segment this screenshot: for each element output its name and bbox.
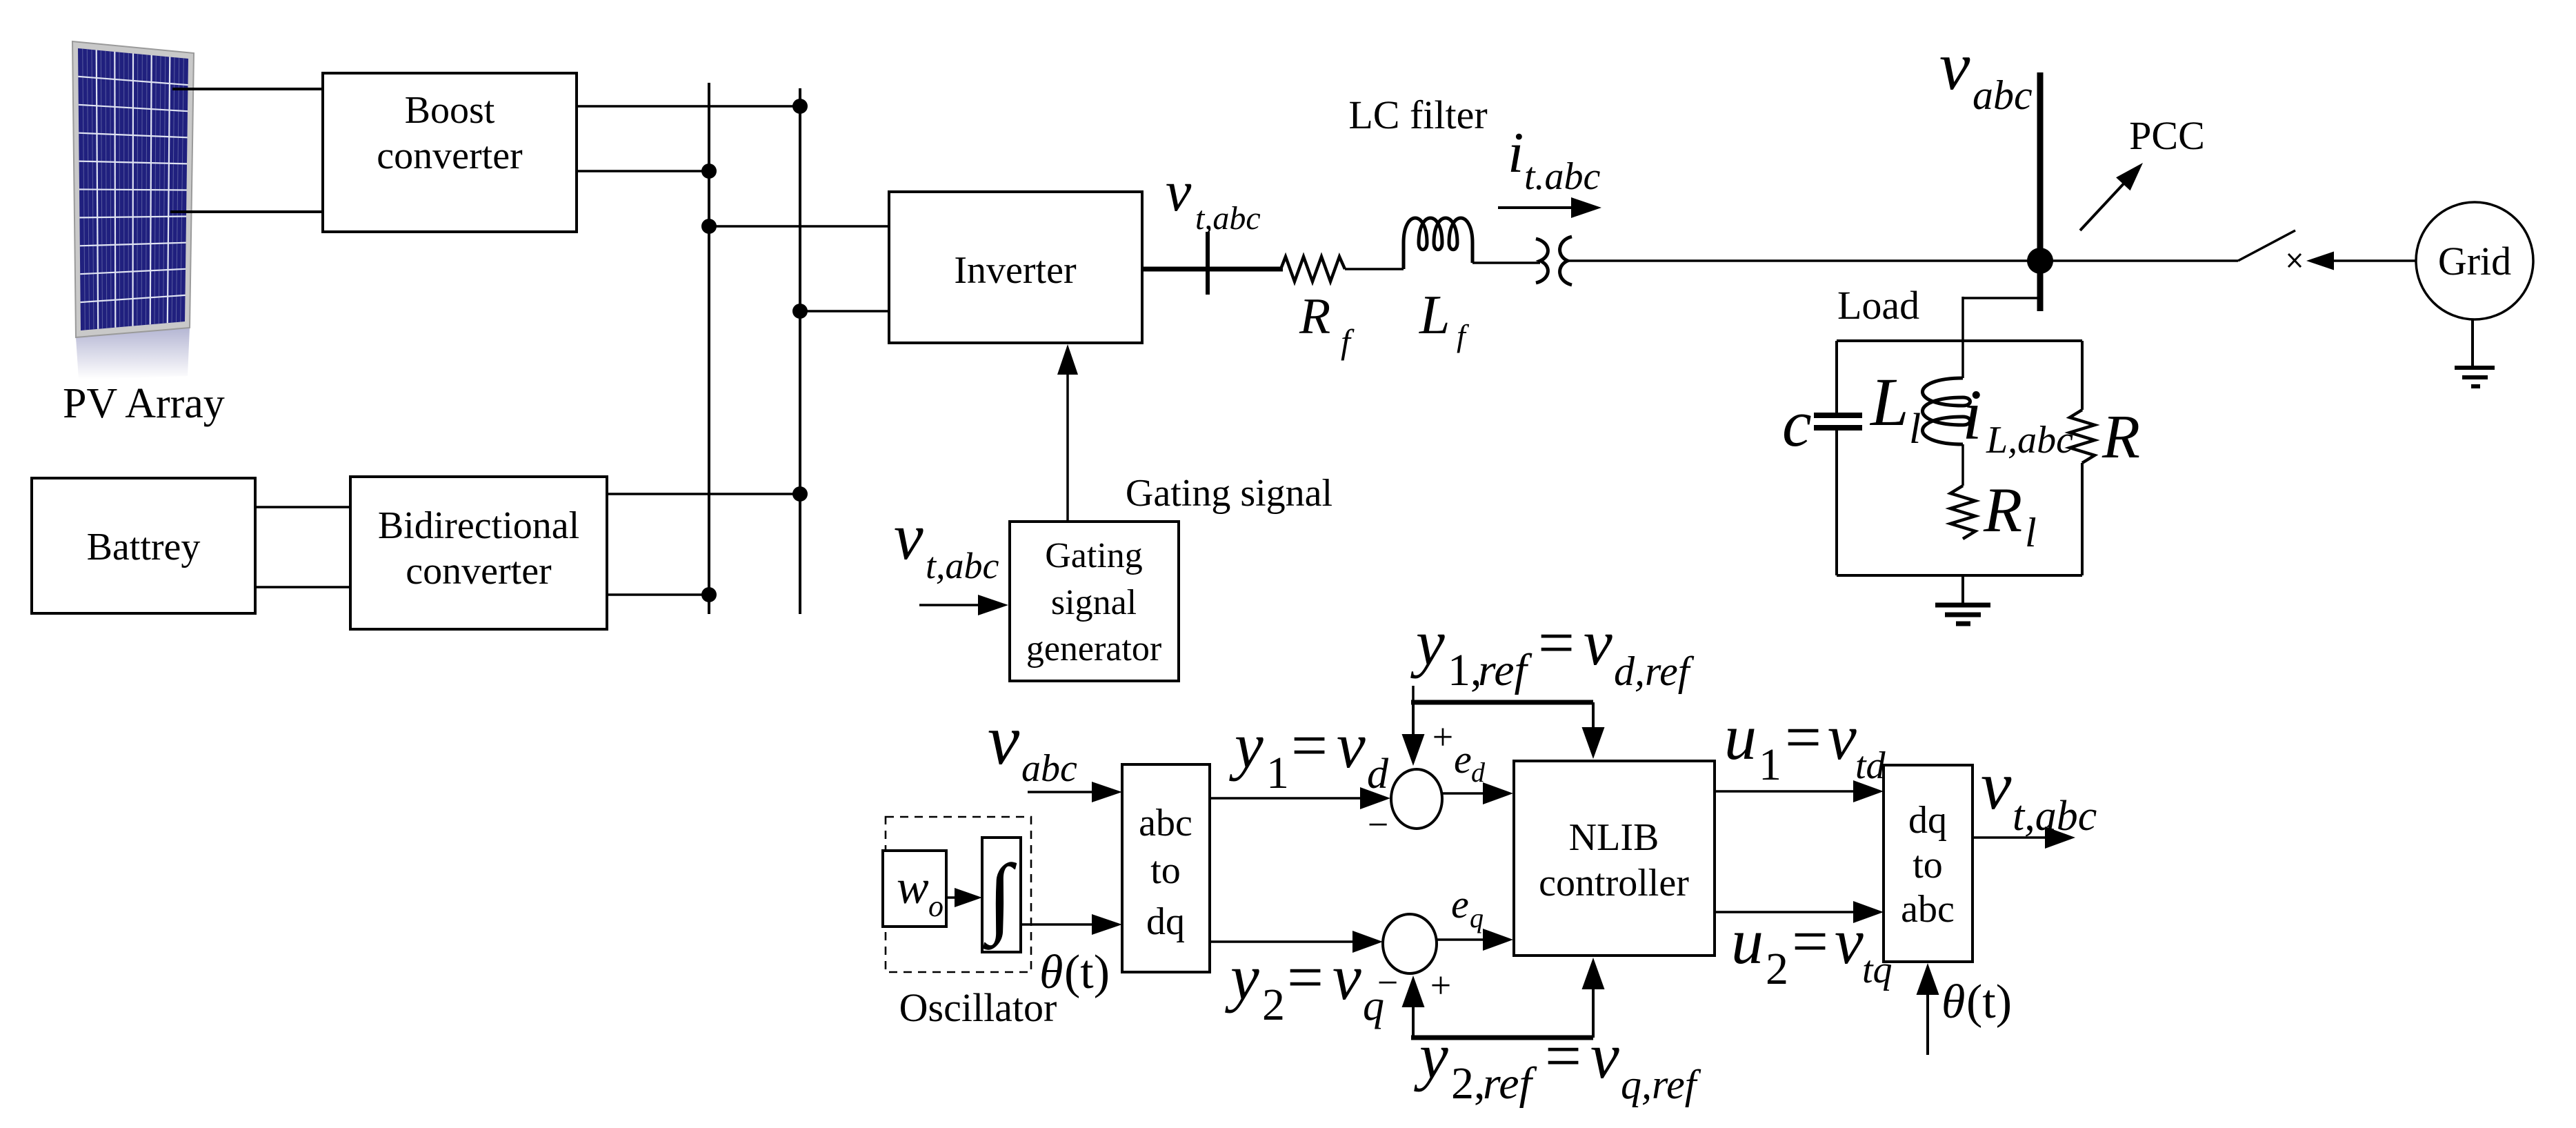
svg-text:Grid: Grid (2438, 239, 2511, 284)
svg-text:y: y (1229, 710, 1264, 782)
svg-text:l: l (1909, 406, 1921, 453)
inverter box (889, 192, 1142, 343)
output arrow v_t,abc (1973, 836, 2046, 839)
svg-text:v: v (1337, 710, 1366, 782)
inductor Lf (1404, 218, 1472, 269)
svg-text:c: c (1782, 386, 1812, 460)
wire bidirectional output top (607, 493, 800, 495)
inductor Ll (middle branch coil) (1923, 378, 1970, 444)
wire boost output top (577, 105, 800, 108)
NLIB controller box (1514, 761, 1715, 956)
svg-text:−: − (1368, 804, 1388, 845)
svg-text:v: v (988, 700, 1020, 780)
svg-text:v: v (1981, 747, 2012, 824)
svg-text:u: u (1724, 702, 1757, 773)
PV array panel (72, 41, 194, 379)
y2ref feed line (thick) (1411, 1036, 1593, 1040)
resistor Rf (1281, 257, 1345, 281)
svg-text:l: l (2025, 510, 2037, 555)
svg-text:R: R (2101, 403, 2140, 471)
svg-text:v: v (1584, 607, 1613, 679)
svg-text:d,ref: d,ref (1614, 649, 1695, 694)
abc to dq box (1122, 764, 1210, 972)
wire bidirectional output bottom (607, 593, 709, 596)
svg-text:R: R (1299, 288, 1330, 345)
svg-text:Oscillator: Oscillator (899, 985, 1057, 1030)
svg-text:PV Array: PV Array (63, 380, 225, 427)
PCC bus bar (thick) (2037, 72, 2044, 311)
theta(t) input arrow (dq-abc) (1926, 988, 1929, 1055)
svg-text:R: R (1983, 475, 2022, 545)
ground (load) (1961, 575, 1964, 605)
svg-text:td: td (1855, 744, 1886, 787)
svg-text:controller: controller (1539, 862, 1689, 904)
svg-text:Bidirectional: Bidirectional (378, 504, 579, 547)
svg-text:dq: dq (1908, 799, 1947, 842)
svg-text:=: = (1291, 710, 1328, 782)
svg-text:converter: converter (377, 135, 523, 177)
svg-text:Load: Load (1837, 283, 1919, 328)
wire u2 NLIB to dq-abc (1715, 911, 1855, 913)
junction (701, 219, 717, 234)
arrow v_abc into abc-dq (1028, 791, 1097, 793)
svg-text:∫: ∫ (982, 847, 1017, 950)
svg-text:2: 2 (1766, 944, 1788, 994)
svg-text:q,ref: q,ref (1621, 1062, 1701, 1107)
arrow from grid (points left) (2310, 259, 2416, 262)
svg-text:=: = (1538, 607, 1575, 679)
svg-text:w: w (897, 861, 929, 914)
wire bus2 to inverter (800, 310, 889, 313)
svg-text:i: i (1508, 121, 1524, 185)
capacitor C (left branch) (1814, 413, 1862, 418)
svg-text:2,: 2, (1451, 1058, 1486, 1109)
svg-text:y: y (1225, 942, 1259, 1013)
svg-text:=: = (1792, 906, 1828, 978)
svg-text:1: 1 (1266, 748, 1289, 798)
svg-text:(t): (t) (1966, 976, 2012, 1029)
svg-text:abc: abc (1139, 802, 1192, 844)
integrator box (982, 838, 1021, 952)
svg-text:=: = (1287, 942, 1324, 1013)
svg-text:o: o (928, 889, 943, 923)
svg-text:v: v (1828, 702, 1857, 773)
wire summing junction 2 to NLIB (1437, 938, 1486, 941)
svg-text:−: − (1377, 962, 1398, 1003)
svg-text:abc: abc (1973, 72, 2033, 118)
svg-text:=: = (1785, 702, 1821, 773)
switch x mark (2288, 254, 2301, 267)
junction (701, 587, 717, 602)
svg-text:NLIB: NLIB (1569, 816, 1659, 859)
inverter output wire (thick) (1142, 267, 1283, 272)
junction (792, 486, 808, 502)
svg-text:converter: converter (406, 550, 552, 593)
arrow into gating generator (919, 604, 979, 606)
measurement tick (1206, 232, 1210, 295)
svg-text:e: e (1454, 737, 1472, 782)
svg-text:θ: θ (1039, 946, 1063, 999)
svg-text:LC filter: LC filter (1348, 92, 1487, 137)
svg-text:1: 1 (1759, 740, 1781, 790)
svg-text:θ: θ (1941, 976, 1965, 1029)
svg-text:t.abc: t.abc (1524, 155, 1601, 198)
svg-text:+: + (1432, 716, 1453, 758)
svg-text:(t): (t) (1064, 946, 1110, 999)
svg-text:L: L (1869, 364, 1909, 440)
svg-text:dq: dq (1146, 900, 1185, 943)
svg-text:Battrey: Battrey (87, 526, 201, 568)
svg-text:Gating: Gating (1045, 536, 1143, 575)
junction (792, 304, 808, 319)
main line to PCC and switch (1567, 259, 2238, 262)
wire battery-bidirectional top (255, 506, 350, 508)
PCC pointer arrow (2080, 180, 2127, 230)
DC bus 2 (799, 88, 801, 614)
svg-text:abc: abc (1901, 888, 1955, 931)
svg-text:Gating signal: Gating signal (1126, 472, 1332, 515)
battery box (32, 478, 255, 613)
arrow w_o to integrator (946, 896, 959, 899)
svg-text:Inverter: Inverter (954, 249, 1077, 292)
svg-text:v: v (1166, 159, 1192, 224)
summing junction 2 (1383, 914, 1437, 973)
ground (grid) (2471, 319, 2474, 368)
bidirectional converter box (350, 477, 607, 629)
svg-text:abc: abc (1021, 747, 1077, 790)
svg-text:v: v (1332, 942, 1361, 1013)
svg-text:t,abc: t,abc (1195, 200, 1261, 237)
boost converter box (323, 73, 577, 232)
svg-text:2: 2 (1262, 980, 1285, 1030)
grid circle (2416, 202, 2533, 319)
svg-text:q: q (1470, 902, 1484, 933)
svg-text:to: to (1150, 849, 1181, 892)
arrow down into NLIB top (1592, 702, 1595, 733)
svg-text:Boost: Boost (405, 89, 495, 132)
wire gating generator to inverter (arrow up) (1066, 373, 1069, 522)
theta(t) line to abc-dq (1021, 923, 1097, 926)
wire y2 to summing junction 2 (1210, 940, 1355, 943)
i_t.abc current arrow (1498, 206, 1572, 209)
resistor Rl (middle branch) (1950, 486, 1975, 539)
wire y1 to summing junction 1 (1210, 797, 1362, 800)
svg-text:L,abc: L,abc (1986, 419, 2073, 462)
arrow up into summing junction 2 (1412, 1000, 1415, 1038)
junction (701, 164, 717, 179)
svg-text:L: L (1419, 285, 1450, 346)
switch blade (2238, 230, 2295, 261)
oscillator dashed box (886, 817, 1031, 972)
svg-text:generator: generator (1026, 629, 1161, 669)
PCC node dot (2027, 248, 2053, 274)
svg-text:1,: 1, (1448, 645, 1482, 695)
svg-text:i: i (1962, 375, 1982, 455)
svg-text:ref: ref (1483, 1058, 1537, 1109)
svg-text:+: + (1430, 964, 1451, 1006)
svg-text:signal: signal (1051, 583, 1137, 622)
svg-text:y: y (1414, 1020, 1448, 1092)
wire PV to boost (bottom) (170, 210, 323, 213)
summing junction 1 (1391, 769, 1442, 829)
svg-text:PCC: PCC (2129, 113, 2205, 158)
svg-text:v: v (1590, 1020, 1619, 1092)
svg-text:v: v (1939, 28, 1970, 104)
load box (1837, 341, 2082, 575)
w_o box (883, 851, 946, 927)
wire boost output bottom (577, 170, 709, 172)
y1ref feed line (thick) (1412, 686, 1415, 702)
resistor R (right branch) (2070, 410, 2095, 463)
load connection stub (1963, 297, 2040, 299)
svg-text:to: to (1913, 844, 1943, 887)
wire bus1 to inverter (709, 225, 889, 228)
svg-text:=: = (1545, 1020, 1581, 1092)
svg-text:u: u (1731, 906, 1764, 978)
svg-text:d: d (1367, 751, 1389, 798)
wire PV to boost (top) (172, 88, 323, 90)
wire u1 NLIB to dq-abc (1715, 790, 1855, 793)
svg-text:v: v (894, 499, 923, 573)
svg-text:ref: ref (1478, 645, 1532, 695)
dq to abc box (1884, 765, 1973, 962)
wire battery-bidirectional bottom (255, 586, 350, 588)
transformer symbol (1536, 239, 1548, 283)
DC bus 1 (708, 83, 710, 614)
junction (792, 99, 808, 114)
gating signal generator box (1010, 522, 1179, 681)
svg-text:e: e (1451, 882, 1469, 927)
svg-text:t,abc: t,abc (926, 545, 999, 586)
svg-text:y: y (1410, 607, 1445, 679)
arrow down into summing junction 1 (1412, 702, 1415, 742)
wire summing junction 1 to NLIB (1443, 792, 1486, 795)
arrow up into NLIB bottom (1592, 982, 1595, 1038)
